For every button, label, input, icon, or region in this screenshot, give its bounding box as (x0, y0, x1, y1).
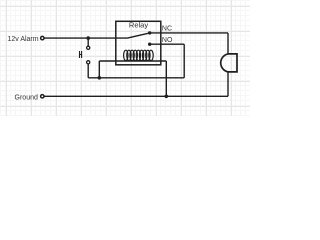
wire NO vertical leg (183, 44, 185, 78)
switch S1 actuator (80, 51, 82, 58)
svg-text:12v Alarm: 12v Alarm (7, 36, 38, 43)
junction dot at ground / coil-right leg (165, 95, 169, 99)
wire NO horizontal (150, 43, 185, 45)
relay U1 box (116, 21, 161, 65)
relay coil L1 (124, 50, 154, 60)
wire ground bus horizontal (44, 95, 228, 97)
wire switch top stub (87, 38, 89, 46)
relay NC contact dot (148, 31, 151, 34)
node Ground terminal (41, 95, 44, 98)
wire coil axis horizontal (99, 60, 166, 62)
wire buzzer bottom leg (227, 72, 229, 96)
wire bottom horizontal to NO leg (88, 77, 184, 79)
junction dot at 12v/switch (86, 36, 90, 40)
svg-text:NO: NO (162, 37, 173, 44)
switch S1 bottom terminal (87, 61, 90, 64)
relay NO contact dot (148, 43, 151, 46)
svg-text:Ground: Ground (15, 94, 38, 101)
svg-text:Relay: Relay (129, 20, 148, 29)
wire switch bottom leg (87, 64, 89, 78)
buzzer LS1 (221, 54, 237, 72)
junction dot at bottom wire / coil branch (98, 76, 102, 80)
grid (decorative) (0, 0, 251, 116)
svg-text:NC: NC (162, 26, 172, 33)
node 12v Alarm terminal (41, 36, 44, 39)
wire coil-right down leg (165, 61, 167, 96)
switch S1 top terminal (87, 46, 90, 49)
wire NC horizontal (150, 32, 228, 34)
wire buzzer top leg (227, 33, 229, 54)
relay arm (128, 33, 150, 38)
wire 12v feed horizontal (44, 37, 127, 39)
wire coil-left branch vertical (98, 61, 100, 78)
